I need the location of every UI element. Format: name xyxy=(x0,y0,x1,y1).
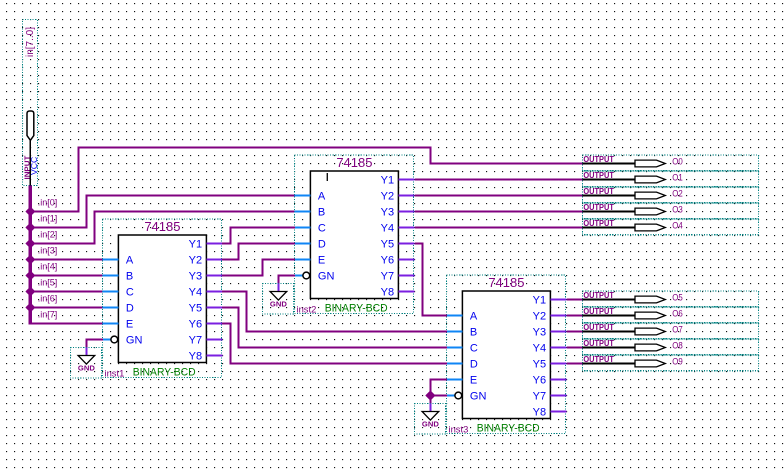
junction bus tap in[2] xyxy=(26,239,35,248)
74185 chip U2 (inst2) xyxy=(294,155,413,314)
wire U2 Y1 to output O1 xyxy=(415,179,583,181)
svg-text:GN: GN xyxy=(318,271,335,283)
svg-text:O1: O1 xyxy=(672,172,683,182)
wire pin stub inst1 GN with bubble xyxy=(102,336,117,343)
svg-text:Y2: Y2 xyxy=(189,255,202,267)
node inst2 pin label Y5 xyxy=(381,239,394,251)
svg-text:O9: O9 xyxy=(672,356,683,366)
wire U1 Y4 to U3 B xyxy=(222,292,447,332)
wire pin stub inst2 Y7 xyxy=(398,275,414,277)
output pin O3 xyxy=(583,203,759,219)
svg-text:Y3: Y3 xyxy=(381,207,394,219)
svg-text:O3: O3 xyxy=(672,204,683,214)
svg-text:E: E xyxy=(470,375,477,387)
wire U3 Y5 to output O9 xyxy=(567,363,583,365)
wire pin stub inst3 E xyxy=(446,379,462,381)
svg-text:Y1: Y1 xyxy=(189,239,202,251)
node inst3 pin label A xyxy=(470,311,478,323)
junction bus tap in[6] xyxy=(26,303,35,312)
wire pin stub inst3 Y7 xyxy=(550,395,566,397)
svg-text:Y3: Y3 xyxy=(533,327,546,339)
svg-text:.in[2]: .in[2] xyxy=(38,229,58,239)
wire U1 Y1 to U2 C xyxy=(222,228,295,244)
node inst3 pin label Y3 xyxy=(533,327,546,339)
svg-text:Y7: Y7 xyxy=(189,335,202,347)
wire pin stub inst2 Y1 xyxy=(398,179,414,181)
ground GND for inst3 xyxy=(414,404,445,435)
svg-text:O8: O8 xyxy=(672,340,683,350)
output pin O8 xyxy=(583,339,759,355)
svg-text:VCC: VCC xyxy=(30,157,39,175)
svg-text:Y2: Y2 xyxy=(533,311,546,323)
svg-text:OUTPUT: OUTPUT xyxy=(583,203,614,212)
svg-text:B: B xyxy=(126,271,133,283)
svg-text:.in[7]: .in[7] xyxy=(38,309,58,319)
svg-text:GN: GN xyxy=(470,391,487,403)
wire pin stub inst2 C xyxy=(294,227,310,229)
wire U1 Y3 to U2 E xyxy=(222,260,295,276)
svg-text:GND: GND xyxy=(78,363,96,372)
svg-text:BINARY-BCD: BINARY-BCD xyxy=(133,367,196,379)
wire pin stub inst2 D xyxy=(294,243,310,245)
wire pin stub inst3 Y8 xyxy=(550,411,566,413)
wire U3 Y2 to output O6 xyxy=(567,315,583,317)
svg-text:BINARY-BCD: BINARY-BCD xyxy=(325,303,388,315)
node .in[3] label xyxy=(38,245,58,255)
node inst1 pin label D xyxy=(126,303,134,315)
svg-text:O6: O6 xyxy=(672,308,683,318)
svg-text:D: D xyxy=(318,239,326,251)
node inst3 pin label D xyxy=(470,359,478,371)
junction bus tap in[1] xyxy=(26,223,35,232)
svg-text:OUTPUT: OUTPUT xyxy=(583,291,614,300)
svg-text:B: B xyxy=(318,207,325,219)
svg-text:Y8: Y8 xyxy=(189,351,202,363)
wire pin stub inst1 Y1 xyxy=(206,243,222,245)
wire in[6] tap to U1 pin D xyxy=(30,307,102,309)
svg-text:A: A xyxy=(126,255,134,267)
svg-text:.in[5]: .in[5] xyxy=(38,277,58,287)
node inst1 pin label Y7 xyxy=(189,335,202,347)
node inst2 name xyxy=(297,304,317,315)
wire pin stub inst3 Y6 xyxy=(550,379,566,381)
svg-text:Y8: Y8 xyxy=(381,287,394,299)
svg-text:OUTPUT: OUTPUT xyxy=(583,307,614,316)
node inst1 pin label Y3 xyxy=(189,271,202,283)
node inst3 symbol name BINARY-BCD xyxy=(477,423,540,435)
wire pin stub inst2 Y3 xyxy=(398,211,414,213)
wire bus in[7..0] xyxy=(29,186,32,325)
node inst2 pin label Y3 xyxy=(381,207,394,219)
svg-text:Y5: Y5 xyxy=(533,359,546,371)
wire U1 Y5 to U3 C xyxy=(222,308,447,348)
svg-text:GND: GND xyxy=(422,419,440,428)
wire pin stub inst2 GN with bubble xyxy=(294,272,309,279)
svg-text:O4: O4 xyxy=(672,220,683,230)
node inst3 pin label Y7 xyxy=(533,391,546,403)
node inst1 pin label Y1 xyxy=(189,239,202,251)
wire U1 GN to ground xyxy=(86,340,102,348)
svg-text:D: D xyxy=(126,303,134,315)
node inst1 name xyxy=(105,368,125,379)
74185 chip U1 (inst1) xyxy=(102,219,221,378)
junction bus tap in[3] xyxy=(26,255,35,264)
node inst1 pin label Y2 xyxy=(189,255,202,267)
svg-text:Y7: Y7 xyxy=(533,391,546,403)
ground GND for inst2 xyxy=(262,284,293,315)
svg-text:O2: O2 xyxy=(672,188,683,198)
svg-text:Y4: Y4 xyxy=(381,223,394,235)
node inst2 pin label A xyxy=(318,191,326,203)
svg-text:O0: O0 xyxy=(672,156,683,166)
wire pin stub inst3 Y2 xyxy=(550,315,566,317)
node inst2 pin label Y4 xyxy=(381,223,394,235)
svg-text:OUTPUT: OUTPUT xyxy=(583,155,614,164)
node .in[2] label xyxy=(38,229,58,239)
wire pin stub inst1 Y2 xyxy=(206,259,222,261)
node inst2 pin label B xyxy=(318,207,325,219)
wire in[1] tap to U2 pin A xyxy=(30,196,294,228)
wire pin stub inst1 E xyxy=(102,323,118,325)
svg-text:Y6: Y6 xyxy=(533,375,546,387)
wire U3 Y1 to output O5 xyxy=(567,299,583,301)
node inst3 pin label Y6 xyxy=(533,375,546,387)
wire pin stub inst2 Y5 xyxy=(398,243,414,245)
wire U2 Y3 to output O3 xyxy=(415,211,583,213)
junction bus tap in[4] xyxy=(26,271,35,280)
wire pin stub inst2 E xyxy=(294,259,310,261)
node inst1 pin label Y5 xyxy=(189,303,202,315)
svg-text:Y4: Y4 xyxy=(533,343,546,355)
svg-text:A: A xyxy=(470,311,478,323)
wire in[2] tap to U2 pin B xyxy=(30,212,294,244)
svg-text:.in[4]: .in[4] xyxy=(38,261,58,271)
input pin in[7..0] xyxy=(22,20,39,187)
node inst1 pin label Y4 xyxy=(189,287,202,299)
junction bus tap in[5] xyxy=(26,287,35,296)
wire pin stub inst1 A xyxy=(102,259,118,261)
node inst3 pin label E xyxy=(470,375,477,387)
wire in[4] tap to U1 pin B xyxy=(30,275,102,277)
svg-text:74185: 74185 xyxy=(488,275,524,290)
node .in[6] label xyxy=(38,293,58,303)
node inst3 pin label Y8 xyxy=(533,407,546,419)
output pin O9 xyxy=(583,355,759,371)
wire pin stub inst2 Y2 xyxy=(398,195,414,197)
svg-text:.in[3]: .in[3] xyxy=(38,245,58,255)
wire U1 Y2 to U2 D xyxy=(222,244,295,260)
wire U2 Y4 to output O4 xyxy=(415,227,583,229)
node inst2 symbol name BINARY-BCD xyxy=(325,303,388,315)
node .in[7] label xyxy=(38,309,58,319)
wire U2 Y2 to output O2 xyxy=(415,195,583,197)
svg-text:A: A xyxy=(318,191,326,203)
node inst3 pin label Y2 xyxy=(533,311,546,323)
wire pin stub inst1 Y7 xyxy=(206,339,222,341)
wire pin stub inst1 Y8 xyxy=(206,355,222,357)
svg-text:74185: 74185 xyxy=(336,155,372,170)
output pin O4 xyxy=(583,219,759,235)
wire U1 Y6 to U3 D xyxy=(222,324,447,364)
svg-text:GN: GN xyxy=(126,335,143,347)
node inst1 pin label B xyxy=(126,271,133,283)
svg-text:Y6: Y6 xyxy=(381,255,394,267)
node inst1 pin label C xyxy=(126,287,134,299)
svg-text:inst1: inst1 xyxy=(105,368,125,379)
wire pin stub inst1 Y5 xyxy=(206,307,222,309)
node .in[1] label xyxy=(38,213,58,223)
svg-text:D: D xyxy=(470,359,478,371)
wire pin stub inst1 D xyxy=(102,307,118,309)
wire in[0] tap to output O0 xyxy=(30,148,582,212)
junction bus tap in[0] xyxy=(26,207,35,216)
wire pin stub inst3 Y3 xyxy=(550,331,566,333)
node inst2 pin label E xyxy=(318,255,325,267)
svg-text:OUTPUT: OUTPUT xyxy=(583,171,614,180)
wire pin stub inst2 Y8 xyxy=(398,291,414,293)
node inst1 pin label GN xyxy=(126,335,143,347)
svg-text:in[7..0]: in[7..0] xyxy=(25,27,36,57)
svg-text:Y6: Y6 xyxy=(189,319,202,331)
wire pin stub inst3 D xyxy=(446,363,462,365)
svg-text:E: E xyxy=(126,319,133,331)
svg-text:Y2: Y2 xyxy=(381,191,394,203)
node inst2 pin label Y1 xyxy=(381,175,394,187)
output pin O2 xyxy=(583,187,759,203)
node inst3 name xyxy=(449,424,469,435)
wire pin stub inst2 Y4 xyxy=(398,227,414,229)
svg-text:Y1: Y1 xyxy=(381,175,394,187)
svg-text:Y5: Y5 xyxy=(381,239,394,251)
wire pin stub inst3 Y1 xyxy=(550,299,566,301)
node inst1 pin label A xyxy=(126,255,134,267)
wire pin stub inst3 C xyxy=(446,347,462,349)
svg-text:.in[1]: .in[1] xyxy=(38,213,58,223)
svg-text:Y4: Y4 xyxy=(189,287,202,299)
wire U3 Y4 to output O8 xyxy=(567,347,583,349)
ground GND for inst1 xyxy=(70,348,101,379)
wire pin stub inst1 C xyxy=(102,291,118,293)
wire pin stub inst3 Y4 xyxy=(550,347,566,349)
svg-text:Y1: Y1 xyxy=(533,295,546,307)
node inst2 pin label Y2 xyxy=(381,191,394,203)
node inst2 pin label Y6 xyxy=(381,255,394,267)
svg-text:BINARY-BCD: BINARY-BCD xyxy=(477,423,540,435)
node inst2 pin label Y7 xyxy=(381,271,394,283)
output pin O7 xyxy=(583,323,759,339)
svg-text:OUTPUT: OUTPUT xyxy=(583,323,614,332)
wire in[3] tap to U1 pin A xyxy=(30,259,102,261)
svg-text:OUTPUT: OUTPUT xyxy=(583,219,614,228)
wire U3 Y3 to output O7 xyxy=(567,331,583,333)
svg-text:inst2: inst2 xyxy=(297,304,317,315)
node inst1 pin label Y6 xyxy=(189,319,202,331)
wire pin stub inst3 A xyxy=(446,315,462,317)
svg-text:OUTPUT: OUTPUT xyxy=(583,187,614,196)
wire pin stub inst3 Y5 xyxy=(550,363,566,365)
svg-text:74185: 74185 xyxy=(144,219,180,234)
node inst3 pin label B xyxy=(470,327,477,339)
wire U3 E and GN to ground xyxy=(430,380,446,404)
svg-text:inst3: inst3 xyxy=(449,424,469,435)
svg-text:E: E xyxy=(318,255,325,267)
svg-text:C: C xyxy=(318,223,326,235)
wire pin stub inst1 Y3 xyxy=(206,275,222,277)
wire U2 GN to ground xyxy=(278,276,294,284)
node .in[0] label xyxy=(38,197,58,207)
wire U2 Y5 to U3 A xyxy=(415,244,447,316)
svg-text:C: C xyxy=(126,287,134,299)
node inst2 pin label Y8 xyxy=(381,287,394,299)
output pin O1 xyxy=(583,171,759,187)
node inst3 pin label Y1 xyxy=(533,295,546,307)
node inst3 pin label Y4 xyxy=(533,343,546,355)
74185 chip U3 (inst3) xyxy=(446,275,565,434)
node inst1 symbol name BINARY-BCD xyxy=(133,367,196,379)
wire in[7] tap to U1 pin E xyxy=(30,323,102,325)
node inst3 pin label GN xyxy=(470,391,487,403)
wire pin stub inst1 Y6 xyxy=(206,323,222,325)
svg-text:Y5: Y5 xyxy=(189,303,202,315)
output pin O5 xyxy=(583,291,759,307)
svg-text:.in[6]: .in[6] xyxy=(38,293,58,303)
wire pin stub inst2 Y6 xyxy=(398,259,414,261)
wire pin stub inst3 GN with bubble xyxy=(446,392,461,399)
wire pin stub inst1 Y4 xyxy=(206,291,222,293)
node inst3 pin label Y5 xyxy=(533,359,546,371)
node inst3 pin label C xyxy=(470,343,478,355)
svg-text:OUTPUT: OUTPUT xyxy=(583,339,614,348)
node inst2 pin label I xyxy=(327,173,328,181)
node inst2 pin label GN xyxy=(318,271,335,283)
node inst1 pin label E xyxy=(126,319,133,331)
node inst2 pin label C xyxy=(318,223,326,235)
output pin O6 xyxy=(583,307,759,323)
svg-text:GND: GND xyxy=(270,299,288,308)
svg-text:B: B xyxy=(470,327,477,339)
wire pin stub inst2 A xyxy=(294,195,310,197)
node .in[5] label xyxy=(38,277,58,287)
node inst2 pin label D xyxy=(318,239,326,251)
wire pin stub inst2 B xyxy=(294,211,310,213)
svg-text:Y3: Y3 xyxy=(189,271,202,283)
node .in[4] label xyxy=(38,261,58,271)
svg-text:OUTPUT: OUTPUT xyxy=(583,355,614,364)
svg-text:C: C xyxy=(470,343,478,355)
svg-text:.in[0]: .in[0] xyxy=(38,197,58,207)
node inst1 pin label Y8 xyxy=(189,351,202,363)
wire in[5] tap to U1 pin C xyxy=(30,291,102,293)
svg-text:Y8: Y8 xyxy=(533,407,546,419)
junction U3 E/GN ground net xyxy=(426,391,435,400)
svg-text:O7: O7 xyxy=(672,324,683,334)
svg-text:Y7: Y7 xyxy=(381,271,394,283)
svg-text:O5: O5 xyxy=(672,292,683,302)
wire pin stub inst1 B xyxy=(102,275,118,277)
wire pin stub inst3 B xyxy=(446,331,462,333)
output pin O0 xyxy=(583,155,759,171)
